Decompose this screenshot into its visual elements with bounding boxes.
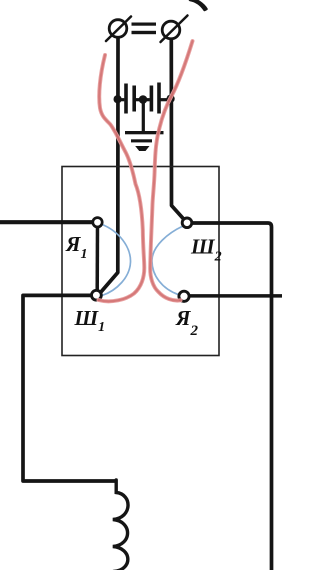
junction dot left [114, 95, 122, 103]
brush terminal Sh2 [182, 218, 192, 228]
red flexible lead left [99, 55, 145, 301]
red flexible lead right [150, 41, 192, 301]
equals sign between terminals [132, 23, 157, 35]
brush terminal Sh1 [92, 290, 102, 300]
capacitor row wire segments [115, 98, 174, 101]
ground symbol [125, 102, 164, 151]
terminal X2 (right circle with slash) [161, 16, 188, 43]
wire from Ya2 to right edge [190, 294, 282, 298]
brush terminal Ya1 [93, 218, 102, 227]
blue arc left (brush to brush) [101, 224, 131, 296]
stray pen mark top right [190, 0, 207, 10]
terminal X1 (left circle with slash) [106, 17, 131, 42]
brush terminal Ya2 [179, 291, 189, 301]
wire from X2 down to brush Sh2 [171, 39, 184, 220]
choke coil L1 [113, 480, 128, 570]
wire to Ya1 from left edge [0, 220, 93, 224]
junction dot right [167, 95, 175, 103]
wire Ya1 to Sh1 [95, 227, 99, 292]
wire from Sh2 right and down right side [192, 223, 272, 570]
junction dot center [139, 95, 148, 104]
wire from X1 down to brush Sh1 [101, 38, 119, 293]
capacitor C1 plates [124, 84, 136, 114]
capacitor C2 plates [150, 83, 161, 114]
blue arc right (brush to brush) [152, 226, 183, 295]
motor housing box [62, 167, 219, 356]
wire from Sh1 left and down to choke [23, 295, 117, 481]
